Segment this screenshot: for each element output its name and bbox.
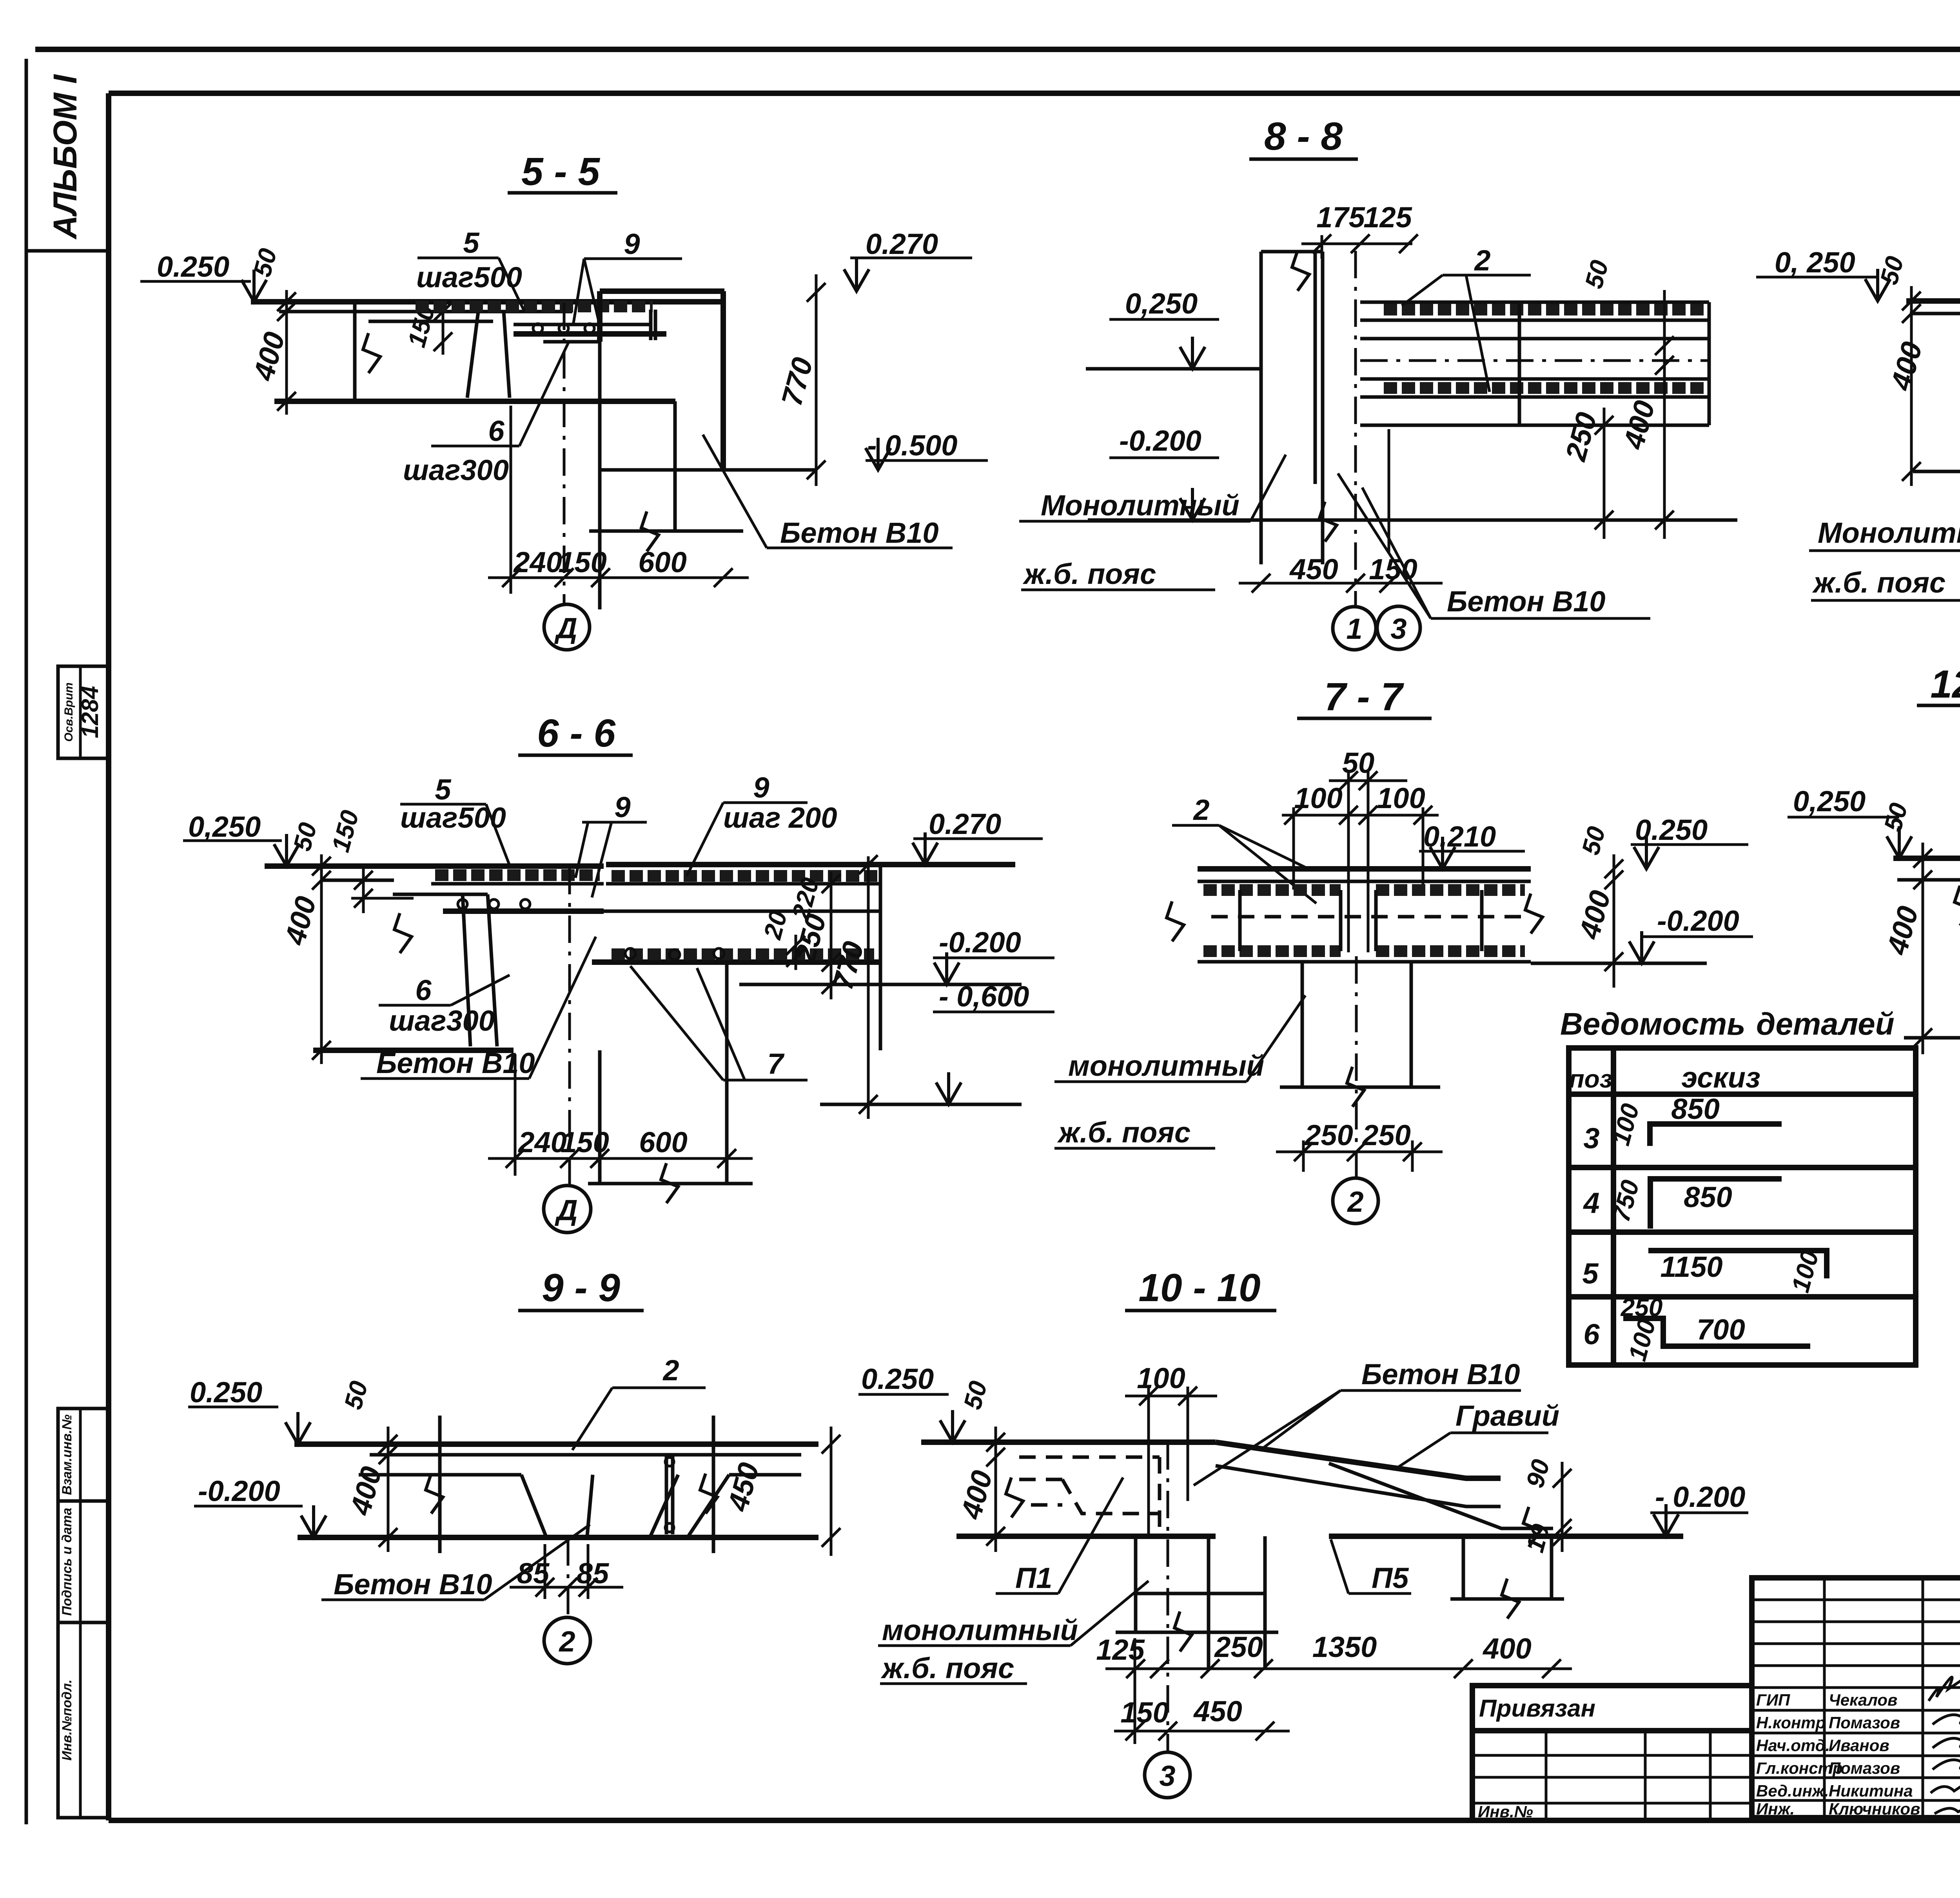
svg-text:50: 50	[1342, 747, 1374, 779]
svg-text:400: 400	[1880, 903, 1925, 959]
svg-text:50: 50	[1576, 823, 1611, 857]
svg-text:450: 450	[721, 1459, 766, 1515]
svg-text:Бетон В10: Бетон В10	[1447, 585, 1606, 618]
svg-text:- 0.500: - 0.500	[867, 429, 957, 462]
svg-text:100: 100	[1623, 1316, 1661, 1364]
svg-text:600: 600	[639, 1126, 687, 1158]
svg-text:ж.б. пояс: ж.б. пояс	[1812, 566, 1945, 599]
svg-text:-0.200: -0.200	[198, 1475, 280, 1507]
svg-text:5: 5	[435, 773, 452, 806]
svg-text:2: 2	[1192, 794, 1209, 826]
svg-text:150: 150	[1120, 1696, 1169, 1729]
svg-text:400: 400	[1884, 338, 1929, 394]
svg-text:0.270: 0.270	[929, 808, 1001, 840]
svg-text:6: 6	[1583, 1318, 1600, 1351]
svg-text:1284: 1284	[77, 686, 103, 738]
svg-text:0.250: 0.250	[861, 1363, 934, 1395]
svg-text:- 0.200: - 0.200	[1655, 1481, 1745, 1513]
svg-text:5: 5	[1582, 1257, 1599, 1290]
svg-text:Инв.№подл.: Инв.№подл.	[60, 1679, 74, 1760]
svg-text:12 - 12: 12 - 12	[1930, 662, 1960, 706]
svg-text:2: 2	[662, 1354, 679, 1387]
svg-text:шаг500: шаг500	[416, 261, 522, 294]
svg-text:6 - 6: 6 - 6	[537, 711, 616, 755]
svg-text:Взам.инв.№: Взам.инв.№	[60, 1414, 74, 1495]
svg-text:3: 3	[1583, 1122, 1599, 1155]
svg-text:400: 400	[1482, 1632, 1531, 1665]
svg-text:Привязан: Привязан	[1479, 1695, 1595, 1722]
svg-text:85: 85	[577, 1557, 610, 1590]
svg-text:9: 9	[614, 791, 630, 823]
svg-text:0, 250: 0, 250	[1775, 246, 1855, 279]
svg-text:шаг300: шаг300	[389, 1004, 495, 1037]
svg-text:450: 450	[1193, 1695, 1242, 1728]
svg-text:Помазов: Помазов	[1829, 1759, 1900, 1777]
svg-text:7: 7	[767, 1048, 785, 1080]
svg-text:1350: 1350	[1312, 1631, 1377, 1663]
svg-text:Гравий: Гравий	[1455, 1399, 1559, 1432]
svg-text:деталей: деталей	[1756, 1006, 1895, 1041]
svg-text:250: 250	[1304, 1119, 1353, 1151]
svg-text:100: 100	[1377, 782, 1425, 814]
svg-text:150: 150	[326, 807, 364, 855]
svg-text:Осв.Врит: Осв.Врит	[62, 682, 75, 741]
svg-text:150: 150	[558, 546, 606, 578]
svg-text:850: 850	[1684, 1181, 1732, 1213]
svg-text:5: 5	[463, 227, 480, 259]
svg-text:3: 3	[1159, 1760, 1175, 1792]
svg-text:Бетон В10: Бетон В10	[780, 517, 939, 549]
svg-text:монолитный: монолитный	[882, 1614, 1078, 1646]
svg-text:240: 240	[513, 546, 562, 578]
svg-text:50: 50	[1875, 253, 1909, 287]
svg-text:100: 100	[1786, 1247, 1824, 1295]
svg-text:эскиз: эскиз	[1681, 1061, 1760, 1094]
svg-text:-0.200: -0.200	[1657, 905, 1739, 937]
svg-text:50: 50	[339, 1378, 373, 1412]
svg-text:монолитный: монолитный	[1068, 1050, 1264, 1082]
svg-text:Бетон В10: Бетон В10	[376, 1047, 535, 1079]
svg-text:2: 2	[558, 1625, 575, 1658]
svg-text:125: 125	[1096, 1633, 1145, 1666]
svg-text:Инж.: Инж.	[1756, 1800, 1795, 1818]
svg-text:Д: Д	[554, 612, 577, 644]
svg-text:шаг 200: шаг 200	[723, 801, 837, 834]
svg-text:Ведомость: Ведомость	[1560, 1006, 1746, 1041]
svg-text:3: 3	[1390, 613, 1406, 645]
svg-text:поз: поз	[1569, 1065, 1613, 1093]
svg-text:700: 700	[1697, 1313, 1745, 1346]
svg-text:Бетон В10: Бетон В10	[1361, 1358, 1520, 1390]
svg-text:0.210: 0.210	[1423, 820, 1496, 853]
svg-text:400: 400	[247, 328, 291, 384]
svg-text:0.270: 0.270	[866, 228, 938, 260]
svg-text:-0.200: -0.200	[939, 926, 1021, 959]
svg-text:250: 250	[1559, 409, 1603, 465]
svg-text:5 - 5: 5 - 5	[521, 150, 600, 194]
svg-text:Ключников: Ключников	[1829, 1800, 1920, 1818]
svg-text:400: 400	[955, 1467, 999, 1523]
svg-text:Вед.инж.: Вед.инж.	[1756, 1782, 1829, 1800]
svg-text:1: 1	[1346, 613, 1362, 645]
svg-text:100: 100	[1137, 1362, 1185, 1394]
svg-text:600: 600	[638, 546, 686, 578]
svg-text:250: 250	[1214, 1631, 1263, 1663]
svg-text:ГИП: ГИП	[1756, 1691, 1790, 1709]
svg-text:- 0,600: - 0,600	[939, 980, 1029, 1013]
svg-text:250: 250	[1361, 1119, 1410, 1151]
svg-text:175: 175	[1316, 201, 1365, 234]
svg-text:2: 2	[1474, 244, 1490, 277]
svg-text:Монолитный: Монолитный	[1041, 489, 1240, 522]
svg-text:50: 50	[1878, 800, 1913, 834]
svg-text:6: 6	[488, 415, 505, 447]
svg-text:Подпись и дата: Подпись и дата	[60, 1508, 74, 1616]
svg-text:0,250: 0,250	[188, 810, 261, 843]
svg-text:50: 50	[1579, 257, 1614, 291]
svg-text:6: 6	[415, 974, 432, 1006]
svg-text:Бетон В10: Бетон В10	[334, 1568, 492, 1601]
svg-text:шаг300: шаг300	[403, 454, 509, 486]
svg-text:400: 400	[278, 893, 323, 949]
svg-text:240: 240	[517, 1126, 566, 1158]
svg-text:Монолитный: Монолитный	[1818, 517, 1960, 549]
svg-text:10 - 10: 10 - 10	[1138, 1266, 1260, 1310]
svg-text:АЛЬБОМ I: АЛЬБОМ I	[47, 74, 83, 240]
svg-text:9: 9	[753, 771, 769, 804]
svg-text:850: 850	[1671, 1093, 1719, 1125]
svg-text:50: 50	[288, 819, 322, 854]
svg-text:7 - 7: 7 - 7	[1324, 675, 1404, 719]
svg-text:770: 770	[775, 354, 819, 409]
svg-text:0,250: 0,250	[1125, 287, 1198, 320]
svg-text:Иванов: Иванов	[1829, 1736, 1889, 1755]
svg-text:125: 125	[1363, 201, 1412, 234]
svg-text:450: 450	[1289, 553, 1338, 586]
svg-text:0.250: 0.250	[157, 250, 229, 283]
svg-text:50: 50	[958, 1378, 993, 1412]
svg-text:1150: 1150	[1660, 1251, 1722, 1283]
svg-text:100: 100	[1294, 782, 1342, 814]
svg-text:Инв.№: Инв.№	[1478, 1802, 1533, 1821]
svg-text:400: 400	[1617, 397, 1661, 453]
svg-text:9: 9	[624, 228, 640, 260]
svg-text:150: 150	[561, 1126, 609, 1158]
svg-text:8 - 8: 8 - 8	[1264, 114, 1343, 158]
svg-text:Чекалов: Чекалов	[1829, 1691, 1897, 1709]
svg-text:П1: П1	[1015, 1562, 1052, 1594]
svg-text:90: 90	[1521, 1456, 1555, 1490]
svg-text:9 - 9: 9 - 9	[542, 1266, 620, 1310]
svg-text:2: 2	[1347, 1186, 1363, 1218]
svg-text:ж.б. пояс: ж.б. пояс	[1022, 558, 1156, 590]
svg-text:ж.б. пояс: ж.б. пояс	[880, 1652, 1014, 1684]
svg-text:Н.контр: Н.контр	[1756, 1713, 1826, 1732]
svg-text:0,250: 0,250	[1793, 785, 1866, 818]
svg-text:Д: Д	[554, 1194, 577, 1226]
svg-text:Нач.отд.: Нач.отд.	[1756, 1736, 1830, 1755]
svg-text:0.250: 0.250	[190, 1376, 262, 1409]
svg-text:П5: П5	[1372, 1562, 1409, 1594]
svg-text:Помазов: Помазов	[1829, 1713, 1900, 1732]
svg-text:400: 400	[344, 1463, 388, 1519]
svg-text:400: 400	[1573, 887, 1617, 943]
svg-text:-0.200: -0.200	[1119, 424, 1201, 457]
svg-text:Никитина: Никитина	[1829, 1782, 1913, 1800]
svg-text:ж.б. пояс: ж.б. пояс	[1057, 1116, 1191, 1149]
svg-text:4: 4	[1583, 1187, 1599, 1219]
